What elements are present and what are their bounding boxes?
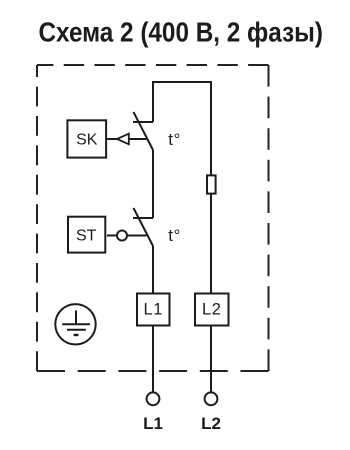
wire top horizontal bus — [153, 81, 211, 83]
wire between contacts — [152, 150, 154, 218]
wire box L2 to terminal — [210, 326, 212, 392]
thermal contact SK: blade — [134, 112, 154, 150]
thermal contact SK: fixed contact tick — [133, 121, 153, 123]
thermal contact ST: blade — [134, 208, 154, 246]
wire right branch upper — [210, 81, 212, 175]
arrowhead (open triangle) — [117, 134, 129, 145]
wire contact ST to box L1 — [152, 246, 154, 294]
ground symbol (protective earth) — [55, 304, 95, 344]
svg-text:SK: SK — [76, 132, 98, 149]
resistor heating element — [207, 175, 216, 193]
terminal L1 — [147, 392, 160, 405]
box L1 — [137, 294, 170, 326]
mechanical link line to ST — [107, 235, 147, 237]
svg-text:t°: t° — [168, 130, 181, 149]
box ST — [68, 217, 105, 253]
link circle — [117, 231, 127, 241]
box L2 — [195, 294, 229, 326]
wire right branch lower — [210, 195, 212, 294]
svg-text:L1: L1 — [143, 414, 163, 433]
wire left branch upper — [152, 81, 154, 122]
svg-text:L1: L1 — [144, 301, 163, 319]
box SK — [67, 120, 106, 157]
dashed enclosure border — [37, 65, 269, 371]
svg-text:L2: L2 — [202, 301, 221, 319]
thermal contact ST: fixed contact tick — [133, 217, 153, 219]
svg-text:L2: L2 — [201, 414, 221, 433]
svg-text:Схема 2 (400 В, 2 фазы): Схема 2 (400 В, 2 фазы) — [39, 16, 324, 47]
wire box L1 to terminal — [152, 326, 154, 392]
svg-text:t°: t° — [168, 226, 181, 245]
terminal L2 — [205, 392, 218, 405]
mechanical link line to SK — [107, 138, 147, 140]
svg-text:ST: ST — [76, 228, 97, 245]
